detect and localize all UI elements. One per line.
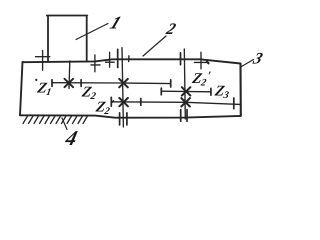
fixing asterisk shaft A upper <box>119 79 128 87</box>
housing 3 top edge <box>23 59 241 63</box>
shaft B vertical <box>184 49 185 119</box>
bearing right of motor <box>91 55 100 72</box>
right tick <box>210 88 212 95</box>
gear Z2' left tick <box>110 97 112 106</box>
fixing asterisk on motor shaft <box>65 79 74 87</box>
housing 3 left edge <box>20 62 23 115</box>
bearing on top line left of motor <box>36 50 50 70</box>
svg-text:Z2′: Z2′ <box>93 97 115 117</box>
housing 3 right edge <box>239 64 241 116</box>
coupling A top bar <box>117 49 119 67</box>
svg-text:Z2: Z2 <box>80 85 98 102</box>
bearing at x110 <box>106 52 115 67</box>
frame hatching 4 <box>23 116 88 124</box>
gear line on shaft B upper <box>161 90 211 93</box>
fixing asterisk shaft B lower <box>181 98 190 106</box>
gear Z2 right tick <box>170 80 172 87</box>
bearing at x201 <box>194 52 207 69</box>
coupling A bottom bars <box>120 113 127 125</box>
svg-text:1: 1 <box>107 13 124 33</box>
svg-text:4: 4 <box>62 126 80 150</box>
motor 1 body <box>47 16 88 62</box>
tick on top line <box>128 56 130 62</box>
coupling B top bar <box>180 53 182 65</box>
gear Z1/Z2 mesh tick <box>80 80 82 87</box>
leader line 2 <box>143 36 166 56</box>
gear Z2'/Z3 mesh tick <box>140 99 142 106</box>
gear Z3 right tick <box>233 98 235 109</box>
gear line Z1-Z2 <box>52 82 171 85</box>
coupling B bottom bars <box>181 110 187 122</box>
housing 3 bottom edge <box>20 115 241 117</box>
leader line 4 <box>62 118 67 130</box>
blob at bearing tick end <box>207 62 209 64</box>
motor shaft <box>68 61 71 89</box>
svg-text:2: 2 <box>163 19 178 38</box>
leader line 3 <box>242 60 254 67</box>
svg-text:Z2′: Z2′ <box>190 69 212 89</box>
left tick <box>160 88 162 95</box>
shaft A vertical <box>122 48 123 127</box>
svg-text:3: 3 <box>250 49 265 68</box>
gear line Z2'-Z3 <box>111 102 240 105</box>
svg-text:Z1: Z1 <box>35 81 53 98</box>
stray dot <box>35 79 37 81</box>
leader line 1 <box>76 24 108 40</box>
fixing asterisk shaft A lower <box>119 98 128 106</box>
fixing asterisk shaft B upper <box>182 87 191 95</box>
gear Z1 left tick <box>51 80 53 87</box>
svg-text:Z3: Z3 <box>213 84 231 101</box>
